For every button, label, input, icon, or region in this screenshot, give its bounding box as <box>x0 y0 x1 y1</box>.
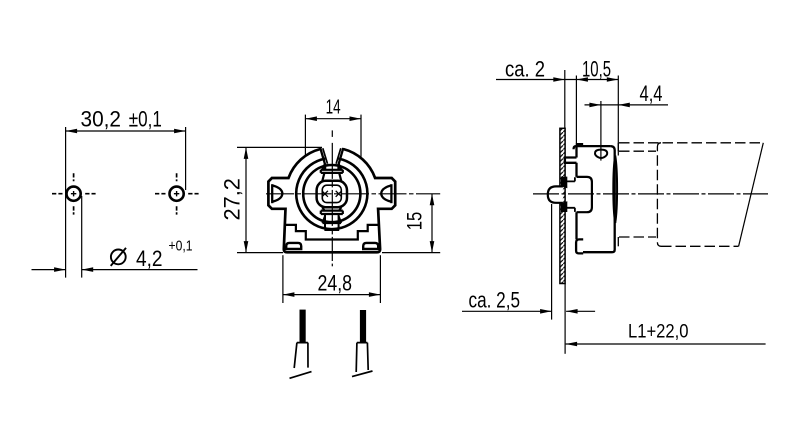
svg-text:ca. 2,5: ca. 2,5 <box>469 287 521 312</box>
svg-text:10,5: 10,5 <box>582 57 611 82</box>
svg-text:24,8: 24,8 <box>318 271 353 296</box>
svg-text:+0,1: +0,1 <box>169 238 193 255</box>
svg-text:27,2: 27,2 <box>220 178 245 221</box>
svg-text:L1+22,0: L1+22,0 <box>628 322 689 343</box>
svg-text:±0,1: ±0,1 <box>129 107 162 132</box>
svg-text:30,2: 30,2 <box>81 107 122 132</box>
svg-text:4,2: 4,2 <box>136 246 163 271</box>
svg-text:ca. 2: ca. 2 <box>505 57 545 82</box>
svg-text:4,4: 4,4 <box>640 81 663 106</box>
svg-text:14: 14 <box>326 96 341 119</box>
svg-text:15: 15 <box>404 212 427 231</box>
